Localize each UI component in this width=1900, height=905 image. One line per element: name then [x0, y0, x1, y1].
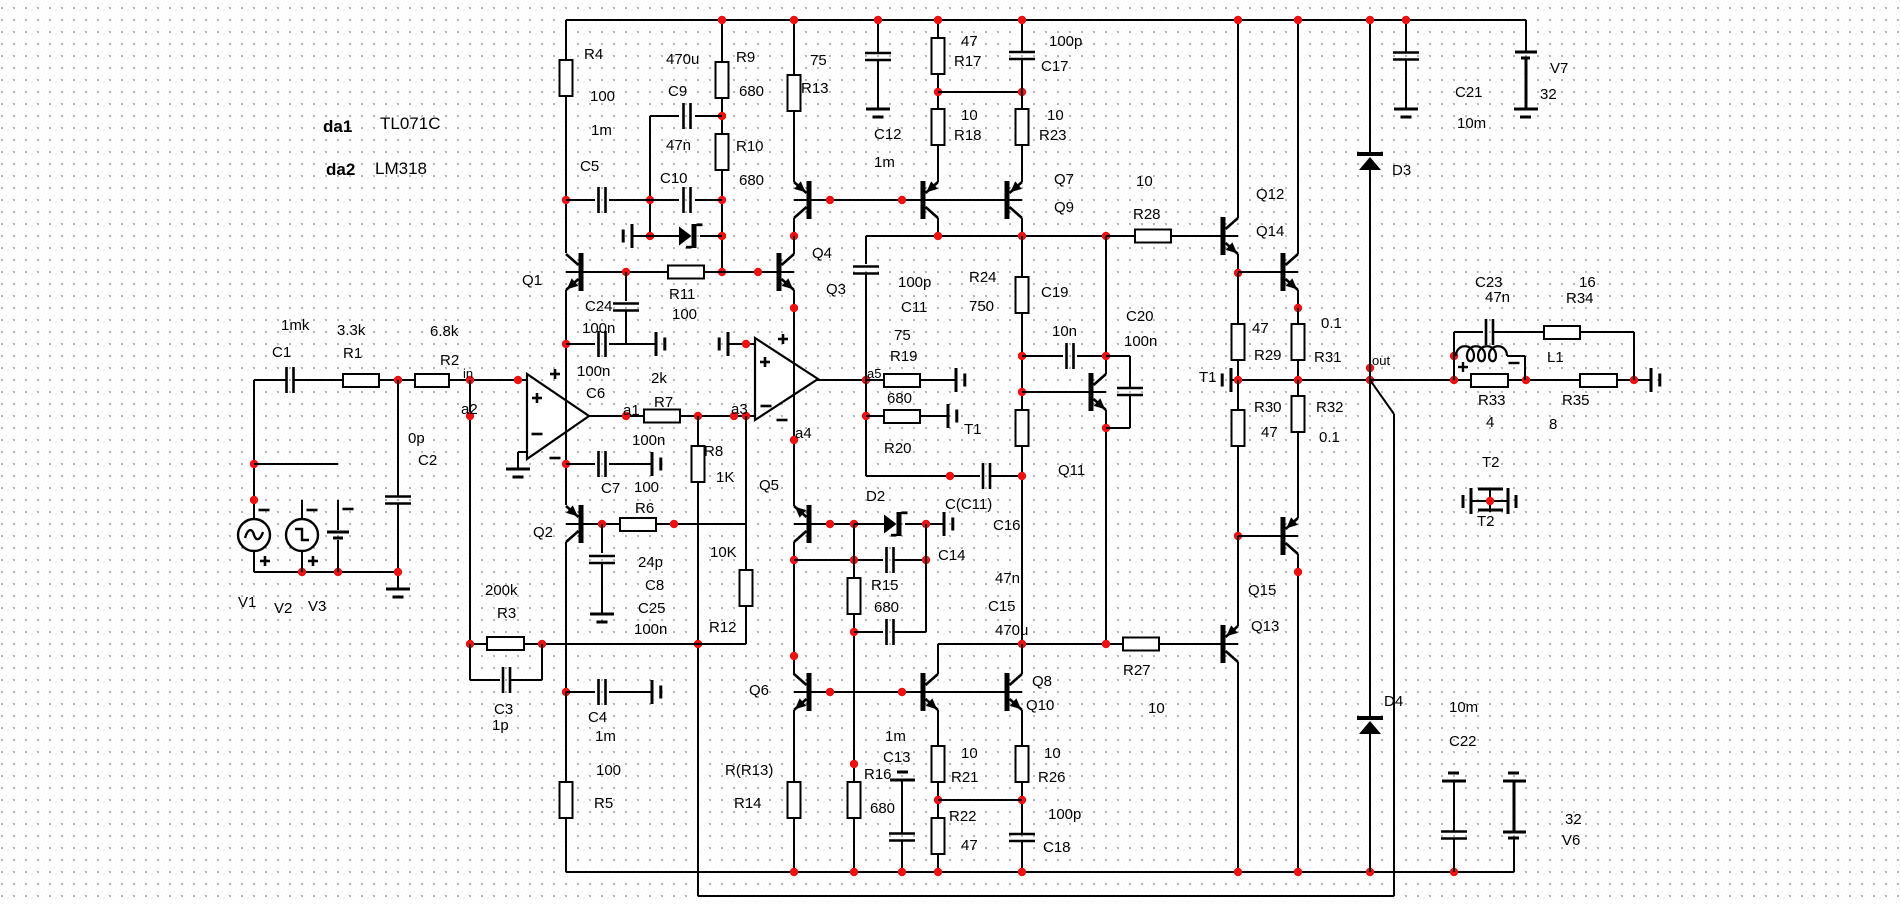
svg-text:100: 100 [672, 306, 697, 323]
transistor Q14 [1281, 253, 1286, 291]
wire Q10 emitter to R26 [1021, 710, 1023, 746]
svg-text:V1: V1 [238, 594, 256, 611]
svg-text:R24: R24 [969, 269, 997, 286]
wire C12 stub [877, 60, 879, 109]
svg-text:R31: R31 [1314, 349, 1342, 366]
wire R29 bottom [1237, 360, 1239, 380]
junction Q4/Q3 node [790, 232, 798, 240]
wire V+ top rail [566, 19, 1526, 21]
resistor R17 [932, 38, 945, 74]
wire out to speaker row [1370, 379, 1471, 381]
junction C9 node [718, 112, 726, 120]
svg-text:10: 10 [1044, 745, 1061, 762]
terminal cap (D1 left) [631, 224, 634, 248]
resistor R22 [932, 818, 945, 854]
source V1 polarity marks [259, 509, 270, 512]
svg-text:10K: 10K [710, 544, 737, 561]
diode D1 [679, 227, 692, 246]
wire x926 vertical [925, 524, 927, 632]
inductor polarity marks [1458, 366, 1468, 368]
wire C10 right [695, 199, 722, 201]
resistor R15 [848, 578, 861, 614]
junction V3 gnd [334, 568, 342, 576]
wire Q2 collector down [565, 542, 567, 692]
svg-text:C13: C13 [883, 749, 911, 766]
capacitor C15 [885, 619, 888, 645]
wire R23 to Q9 [1021, 145, 1023, 182]
wire D4 to rail [1369, 734, 1371, 872]
wire R32 bottom to Q15 [1297, 432, 1299, 518]
wire Q13 collector down [1237, 662, 1239, 872]
junction C(C11) node [1018, 472, 1026, 480]
svg-text:R28: R28 [1133, 206, 1161, 223]
wire C23 corner [1453, 332, 1455, 356]
wire C22 to rail [1453, 838, 1455, 872]
wire x1106 vertical top [1105, 236, 1107, 374]
svg-text:a5: a5 [867, 366, 881, 381]
wire Q6 base right [811, 691, 921, 693]
svg-text:Q11: Q11 [1058, 462, 1085, 479]
transistor Q11 [1089, 373, 1094, 411]
wire R2-opamp [449, 379, 527, 381]
svg-text:V3: V3 [308, 598, 326, 615]
wire opamp1 -in to ground [518, 451, 527, 453]
transistor Q7 [921, 181, 926, 219]
junction Q3 base node [754, 268, 762, 276]
svg-text:R12: R12 [709, 619, 737, 636]
svg-text:47: 47 [961, 837, 978, 854]
wire R20 left [866, 415, 884, 417]
junction rail C18 [1018, 868, 1026, 876]
wire C23 to R34 [1493, 331, 1544, 333]
wire R24-R25 [1021, 313, 1023, 410]
svg-text:R10: R10 [736, 138, 764, 155]
wire R5 to rail [565, 818, 567, 872]
wire Q3 emitter down [793, 290, 795, 506]
svg-text:200k: 200k [485, 582, 518, 599]
svg-text:C3: C3 [494, 701, 513, 718]
wire Q11 emitter down [1105, 410, 1107, 644]
svg-text:C14: C14 [938, 547, 966, 564]
junction V2 gnd [298, 568, 306, 576]
wire C20 bottom [1129, 395, 1131, 428]
junction Q15c node [1294, 568, 1302, 576]
svg-text:Q5: Q5 [759, 477, 779, 494]
wire D3 down to out [1369, 170, 1371, 380]
junction rail R22 [934, 868, 942, 876]
junction out junction [1366, 376, 1374, 384]
wire C22 stub [1453, 781, 1455, 832]
wire R18 to Q7 [937, 145, 939, 182]
svg-text:Q4: Q4 [812, 245, 832, 262]
transistor Q12 [1221, 217, 1226, 255]
terminal cap C7 right [651, 452, 654, 476]
junction C19/C20 node [1102, 352, 1110, 360]
wire Q6 emitter to R14 [793, 710, 795, 783]
wire R14 to rail [793, 818, 795, 872]
wire C5 left [566, 199, 595, 201]
junction R3 right [538, 640, 546, 648]
svg-text:in: in [463, 366, 473, 381]
wire rail to D3 [1369, 20, 1371, 154]
svg-text:47n: 47n [1485, 289, 1510, 306]
junction Q3 emitter node [790, 304, 798, 312]
wire C7 left [566, 463, 595, 465]
svg-text:100p: 100p [898, 274, 931, 291]
wire V2 top stub [301, 500, 303, 519]
svg-text:C4: C4 [588, 709, 607, 726]
svg-text:Q3: Q3 [826, 281, 846, 298]
svg-text:C22: C22 [1449, 733, 1477, 750]
wire C15 right corner [894, 631, 926, 633]
wire R22 to rail [937, 854, 939, 872]
op-amp da1 TL071C [527, 374, 589, 459]
wire R32 top [1297, 380, 1299, 396]
junction R31 node [1294, 304, 1302, 312]
svg-text:C12: C12 [874, 126, 902, 143]
junction rail D4 [1366, 868, 1374, 876]
wire R9-R10 [721, 98, 723, 134]
wire Q8-Q10 base [926, 691, 1006, 693]
wire R35 right [1617, 379, 1651, 381]
wire Q7 collector [937, 218, 939, 236]
wire Q4 collector [793, 218, 795, 236]
wire to D1 [632, 235, 679, 237]
wire C19 right [1077, 355, 1106, 357]
resistor R8 [692, 446, 705, 482]
capacitor C(C11) [982, 463, 985, 489]
svg-text:a4: a4 [795, 425, 812, 442]
svg-text:R32: R32 [1316, 399, 1344, 416]
wire R15 down [853, 614, 855, 782]
wire C17 down [1021, 59, 1023, 109]
wire rail to C21 [1405, 20, 1407, 53]
junction a2 [466, 412, 474, 420]
svg-text:C20: C20 [1126, 308, 1154, 325]
junction D1 node [718, 232, 726, 240]
junction rail R16 [850, 868, 858, 876]
junction C14 row node [790, 556, 798, 564]
svg-text:8: 8 [1549, 416, 1557, 433]
capacitor C17 [1009, 51, 1035, 54]
junction R33 left [1450, 376, 1458, 384]
terminal cluster T2 [1472, 500, 1508, 502]
svg-text:0p: 0p [408, 430, 425, 447]
svg-text:R27: R27 [1123, 662, 1151, 679]
wire R13 to Q4 [793, 111, 795, 182]
wire Q12 emitter [1237, 254, 1239, 273]
resistor R25 [1016, 410, 1029, 446]
svg-text:3.3k: 3.3k [337, 322, 366, 339]
wire C8 top [601, 524, 603, 553]
svg-text:da2: da2 [326, 160, 355, 179]
svg-text:R29: R29 [1254, 347, 1282, 364]
svg-text:R18: R18 [954, 127, 982, 144]
svg-text:T2: T2 [1482, 454, 1500, 471]
junction R28 node [1102, 232, 1110, 240]
capacitor C1 [285, 367, 288, 393]
wire L1 right drop [1507, 355, 1525, 357]
junction rail Q13c [1234, 868, 1242, 876]
junction C17/R23 node [1018, 88, 1026, 96]
wire Q8 collector corner [937, 644, 939, 674]
resistor R35 [1580, 374, 1617, 387]
junction D2 node [850, 520, 858, 528]
junction L1 right node [1522, 376, 1530, 384]
wire Q15 base [1238, 535, 1281, 537]
junction rail D3 [1366, 16, 1374, 24]
resistor R33 speaker [1471, 374, 1508, 387]
svg-text:10n: 10n [1052, 323, 1077, 340]
wire R6 right [656, 523, 746, 525]
wire D1 cathode [700, 235, 722, 237]
svg-text:R16: R16 [864, 766, 892, 783]
wire y644 bus [938, 643, 1123, 645]
svg-text:C7: C7 [601, 480, 620, 497]
resistor R2 [415, 374, 449, 387]
svg-text:4: 4 [1486, 414, 1494, 431]
svg-text:R(R13): R(R13) [725, 762, 773, 779]
wire R30 bottom [1237, 446, 1239, 536]
junction R27 node [1102, 640, 1110, 648]
svg-text:100n: 100n [577, 363, 610, 380]
svg-text:D3: D3 [1392, 162, 1411, 179]
svg-text:680: 680 [870, 800, 895, 817]
junction out net [1366, 364, 1374, 372]
terminal cap output end [1650, 368, 1653, 392]
svg-text:Q2: Q2 [533, 524, 553, 541]
svg-text:Q7: Q7 [1054, 171, 1074, 188]
capacitor C22 terminal [1448, 772, 1459, 775]
junction Q9c [1018, 232, 1026, 240]
junction R20 node [862, 412, 870, 420]
wire R34 right corner [1580, 331, 1634, 333]
svg-text:2k: 2k [651, 370, 667, 387]
capacitor C6 [597, 331, 600, 357]
svg-text:R8: R8 [704, 443, 723, 460]
wire C1-R1 [294, 379, 343, 381]
wire Q2 base [582, 523, 620, 525]
wire C13 to rail [901, 840, 903, 872]
svg-text:100p: 100p [1048, 806, 1081, 823]
svg-text:C6: C6 [586, 385, 605, 402]
wire R17/R23 link [938, 91, 1022, 93]
junction base node [826, 196, 834, 204]
junction Q10c node [1018, 640, 1026, 648]
transistor Q3 [777, 253, 782, 291]
svg-text:D4: D4 [1384, 693, 1403, 710]
svg-text:R22: R22 [949, 808, 977, 825]
svg-text:R3: R3 [497, 605, 516, 622]
wire to R28 [1106, 235, 1135, 237]
svg-text:Q13: Q13 [1251, 618, 1279, 635]
resistor R29 [1232, 324, 1245, 360]
diode D2 [884, 515, 897, 534]
svg-text:680: 680 [739, 83, 764, 100]
svg-text:16: 16 [1579, 274, 1596, 291]
svg-text:C17: C17 [1041, 58, 1069, 75]
ground C2 [386, 588, 410, 591]
svg-text:R23: R23 [1039, 127, 1067, 144]
terminal cap T1 [1230, 368, 1233, 392]
resistor R32 [1292, 396, 1305, 432]
wire a3 down [745, 416, 747, 571]
capacitor C13 [889, 832, 915, 835]
wire fb riser [1393, 414, 1395, 896]
junction rail C12 [874, 16, 882, 24]
capacitor C11 [853, 265, 879, 268]
svg-text:6.8k: 6.8k [430, 323, 459, 340]
resistor R26 [1016, 746, 1029, 782]
svg-text:Q9: Q9 [1054, 199, 1074, 216]
junction T2 center [1486, 497, 1494, 505]
resistor R3 [487, 637, 524, 650]
junction C18 node [1018, 796, 1026, 804]
junction R29/R30 node [1234, 376, 1242, 384]
svg-text:100n: 100n [632, 432, 665, 449]
wire Q11 base [1022, 391, 1090, 393]
svg-text:100: 100 [634, 479, 659, 496]
svg-text:32: 32 [1540, 86, 1557, 103]
svg-text:T2: T2 [1477, 513, 1495, 530]
svg-text:C9: C9 [668, 83, 687, 100]
junction stub node [250, 460, 258, 468]
junction R15 top [850, 556, 858, 564]
junction Q7c [934, 232, 942, 240]
resistor R21 [932, 746, 945, 782]
capacitor C8 [589, 555, 615, 558]
wire stub [254, 463, 338, 465]
wire R15 column [853, 524, 855, 578]
wire C20 top [1106, 355, 1130, 357]
svg-text:R13: R13 [801, 80, 829, 97]
resistor R1 [343, 374, 379, 387]
capacitor C14 [885, 547, 888, 573]
junction L1 left [1450, 352, 1458, 360]
junction Q5 base node [826, 520, 834, 528]
transistor Q13 [1221, 625, 1226, 663]
wire source bottom rail [254, 571, 398, 573]
source V2 polarity marks [307, 509, 318, 512]
terminal cap R19 right [955, 368, 958, 392]
wire R4 down [565, 96, 567, 253]
wire R29 top [1237, 273, 1239, 324]
wire R16 to rail [853, 818, 855, 872]
wire C9 corner down [649, 116, 651, 236]
svg-text:Q14: Q14 [1256, 223, 1284, 240]
source V1 [238, 519, 270, 551]
wire Q5 base right [811, 523, 854, 525]
junction R1/R2/C2 [394, 376, 402, 384]
inductor L1 [1456, 346, 1507, 361]
transistor Q15 [1281, 517, 1286, 555]
capacitor C12 [865, 52, 891, 55]
junction in [466, 376, 474, 384]
junction fb node [694, 640, 702, 648]
resistor R30 [1232, 410, 1245, 446]
wire R30 top [1237, 380, 1239, 410]
svg-text:470u: 470u [666, 51, 699, 68]
wire R13 top [793, 20, 795, 75]
op-amp da2 LM318 [755, 338, 818, 420]
svg-text:D2: D2 [866, 488, 885, 505]
source V2 [286, 519, 318, 551]
wire C9 right [695, 115, 722, 117]
wire C13 stub [901, 780, 903, 834]
transistor Q1 [579, 253, 584, 291]
junction C16 node [946, 472, 954, 480]
wire bottom rail B feedback [698, 895, 1394, 897]
wire R11 right [704, 271, 779, 273]
wire to D2 [854, 523, 884, 525]
resistor R7 [644, 410, 680, 423]
svg-text:C1: C1 [272, 344, 291, 361]
resistor R6 [620, 518, 656, 531]
resistor R23 [1016, 109, 1029, 145]
svg-text:C24: C24 [585, 298, 613, 315]
svg-text:24p: 24p [638, 554, 663, 571]
svg-text:750: 750 [969, 298, 994, 315]
junction C14 right node [922, 556, 930, 564]
junction opamp1 +in [514, 376, 522, 384]
wire T1 row [1231, 379, 1370, 381]
svg-text:47: 47 [1252, 320, 1269, 337]
resistor R34 [1544, 326, 1580, 339]
junction rail R9 [718, 16, 726, 24]
wire Q1 base to R11 [582, 271, 668, 273]
junction rail Q12 [1234, 16, 1242, 24]
terminal cap C16 [943, 512, 946, 536]
resistor R13 [788, 75, 801, 111]
wire Q13 emitter up [1237, 536, 1239, 626]
svg-text:C8: C8 [645, 577, 664, 594]
capacitor C2 [385, 495, 411, 498]
junction R17/R18 node [934, 88, 942, 96]
terminal cap a1 net [655, 332, 658, 356]
wire bottom rail A [566, 871, 1514, 873]
junction a5 [862, 376, 870, 384]
junction a3 node2 [742, 412, 750, 420]
wire C2 branch [397, 380, 399, 497]
svg-text:R30: R30 [1254, 399, 1282, 416]
svg-text:47n: 47n [666, 137, 691, 154]
svg-text:V6: V6 [1562, 832, 1580, 849]
svg-text:10: 10 [1148, 700, 1165, 717]
svg-text:da1: da1 [323, 117, 352, 136]
wire a5 corner to C16 row [866, 475, 980, 477]
junction R11 node [718, 268, 726, 276]
resistor R20 [884, 410, 920, 423]
svg-text:R4: R4 [584, 46, 603, 63]
svg-text:100: 100 [590, 88, 615, 105]
junction base node x902 [898, 688, 906, 696]
resistor R12 [740, 570, 753, 606]
svg-text:T1: T1 [964, 421, 982, 438]
transistor Q2 [579, 505, 584, 543]
svg-text:V7: V7 [1550, 60, 1568, 77]
svg-text:0.1: 0.1 [1321, 315, 1342, 332]
resistor R28 [1135, 230, 1171, 243]
svg-text:R19: R19 [890, 348, 918, 365]
svg-text:470u: 470u [995, 622, 1028, 639]
junction Q14 base node [1234, 269, 1242, 277]
svg-text:680: 680 [874, 599, 899, 616]
wire V1 bottom [253, 551, 255, 572]
wire opamp1 out [589, 415, 644, 417]
junction C5/C10 node [646, 196, 654, 204]
transistor Q5 [807, 505, 812, 543]
wire Q8 emitter to R21 [937, 710, 939, 746]
